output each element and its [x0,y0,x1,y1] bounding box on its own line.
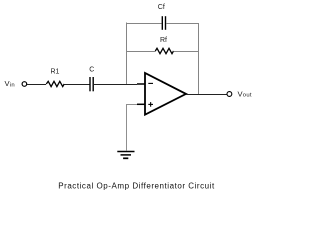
wire C to inverting input node [94,84,137,86]
svg-text:R1: R1 [51,69,60,76]
wire feedback left vertical (node A up from inverting input) [126,23,128,85]
svg-text:out: out [243,93,252,99]
svg-text:C: C [89,67,94,74]
resistor R1 [46,81,64,86]
Vin label [5,79,15,88]
op-amp U1 non-inverting pin mark (+) [148,102,153,107]
wire op-amp output to Vout terminal [186,94,227,96]
wire top rail right (Cf to right vertical) [166,23,199,25]
svg-text:Rf: Rf [160,37,167,44]
node Vout output terminal [227,92,232,97]
svg-text:Practical Op-Amp Differentiato: Practical Op-Amp Differentiator Circuit [58,182,215,191]
op-amp U1 triangle [145,73,186,115]
capacitor C [90,77,93,91]
wire Rf rail right [174,51,200,53]
resistor Rf [155,48,173,53]
wire R1 to C [65,84,90,86]
wire top rail left (to Cf) [126,23,162,25]
ground [117,152,134,159]
wire Rf rail left [126,51,156,53]
node Vin input terminal [22,82,27,87]
capacitor Cf [162,16,165,30]
svg-text:Cf: Cf [158,4,165,11]
wire inverting input pin stub [137,83,145,85]
op-amp U1 inverting pin mark (-) [148,82,153,84]
wire non-inverting input pin stub [137,103,145,105]
wire non-inverting input to ground branch [127,105,138,151]
wire feedback right vertical (output node up) [198,23,200,95]
svg-text:in: in [10,82,15,88]
Vout label [238,89,252,98]
wire Vin terminal to R1 [27,84,46,86]
